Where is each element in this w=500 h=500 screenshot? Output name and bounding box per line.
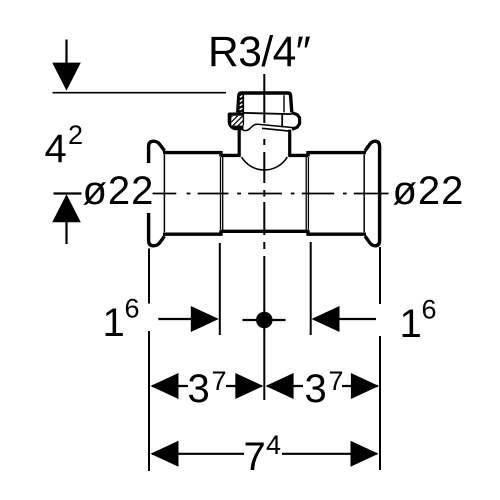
hex facet line bbox=[281, 115, 283, 128]
dimension arrow down 4.2 bbox=[52, 40, 81, 91]
svg-text:4: 4 bbox=[45, 127, 67, 171]
thread section R3/4 bbox=[238, 93, 292, 112]
extension line z right bbox=[310, 242, 312, 335]
svg-text:2: 2 bbox=[68, 120, 83, 150]
dimension 1.6 right bbox=[312, 295, 437, 347]
socket interior line right bbox=[363, 155, 365, 233]
centerline vertical axis bbox=[263, 74, 265, 400]
extension line right end bbox=[379, 247, 381, 470]
svg-text:7: 7 bbox=[329, 366, 344, 396]
svg-text:1: 1 bbox=[103, 301, 125, 345]
centerline horizontal axis bbox=[153, 193, 389, 195]
dimension 3.7 right bbox=[266, 366, 379, 411]
tee left socket bbox=[163, 151, 221, 236]
dimension 3.7 left bbox=[151, 366, 264, 411]
reference line top bbox=[53, 92, 227, 94]
svg-text:R3/4″: R3/4″ bbox=[208, 29, 311, 76]
svg-text:4: 4 bbox=[266, 430, 281, 460]
dimension 1.6 left bbox=[103, 294, 219, 346]
thread side line right bbox=[283, 95, 285, 112]
svg-text:7: 7 bbox=[212, 366, 227, 396]
socket stop lines left bbox=[221, 157, 223, 230]
dimension arrow up 4.2 bbox=[52, 194, 81, 245]
socket stop lines right bbox=[306, 157, 308, 230]
branch dome arc bbox=[242, 157, 288, 170]
svg-text:6: 6 bbox=[422, 295, 437, 325]
svg-text:ø22: ø22 bbox=[83, 169, 155, 213]
center reference dot bbox=[243, 312, 286, 329]
hex nut top edge bbox=[243, 113, 291, 114]
svg-text:1: 1 bbox=[400, 302, 422, 346]
section boundary line bbox=[242, 93, 244, 125]
tee body bbox=[221, 155, 308, 231]
hex nut bottom edge right bbox=[262, 128, 291, 131]
hex nut sectioned left part bbox=[222, 108, 256, 142]
extension line left end bbox=[148, 249, 150, 472]
dimension 7.4 bbox=[151, 430, 379, 479]
section break wavy line bbox=[239, 124, 298, 130]
branch neck bbox=[239, 130, 290, 157]
svg-text:ø22: ø22 bbox=[393, 169, 465, 213]
socket interior line left bbox=[163, 155, 165, 233]
svg-text:3: 3 bbox=[188, 367, 210, 411]
label 4.2 bbox=[45, 120, 84, 171]
tee left bead end bbox=[149, 141, 165, 246]
tee right socket bbox=[308, 151, 366, 236]
extension line z left bbox=[219, 243, 221, 335]
threaded spigot section band bbox=[237, 92, 244, 115]
hex nut right flank bbox=[292, 113, 300, 130]
svg-text:6: 6 bbox=[125, 294, 140, 324]
tee right bead end bbox=[365, 141, 380, 246]
svg-text:7: 7 bbox=[244, 435, 266, 479]
svg-text:3: 3 bbox=[305, 367, 327, 411]
